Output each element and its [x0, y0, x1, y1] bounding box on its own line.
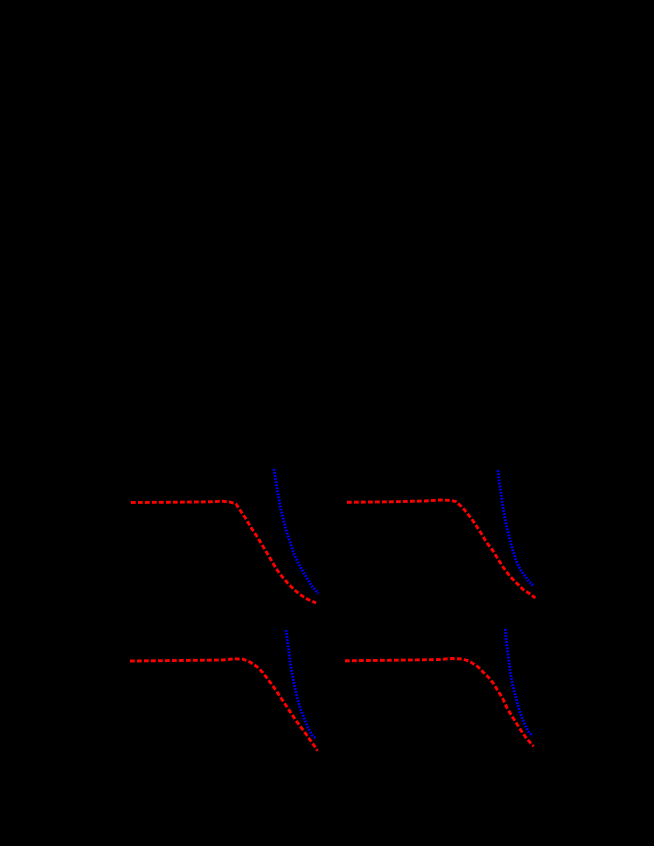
- panel 3 blue dotted curve: [286, 630, 316, 739]
- panel 4 red dashed curve: [345, 659, 534, 747]
- panel 2 red dashed curve: [347, 500, 535, 598]
- panel 3 red dashed curve: [130, 659, 318, 751]
- panel 1 blue dotted curve: [274, 469, 319, 594]
- panel 2 blue dotted curve: [498, 470, 534, 586]
- panel 4 blue dotted curve: [505, 629, 532, 736]
- panel 1 red dashed curve: [131, 501, 316, 603]
